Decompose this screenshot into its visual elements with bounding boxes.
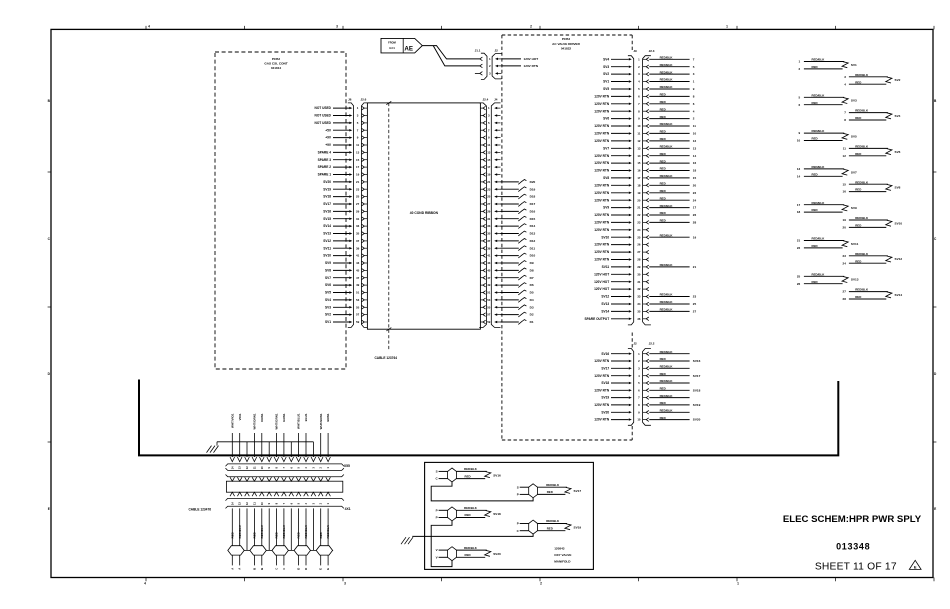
svg-text:SV1: SV1 [325,320,331,324]
wire J2.2 pin 5 RED/BLK [649,379,689,383]
svg-text:RED/BLK: RED/BLK [812,272,826,276]
svg-text:J4: J4 [494,98,498,102]
svg-text:J2: J2 [633,342,637,346]
svg-text:SV5: SV5 [325,291,331,295]
svg-text:OXY VALVE: OXY VALVE [554,553,571,557]
svg-text:RED: RED [855,152,861,156]
svg-text:35: 35 [637,310,641,314]
svg-text:25: 25 [487,195,491,199]
wire J2.3 pin 14 RED to SV pin 14 [649,152,696,158]
wire J2.3 pin 9 RED to SV pin 2 [649,115,695,121]
svg-text:S: S [517,485,519,489]
wire SV2 to J6 pin 57 [325,313,352,317]
svg-text:9-C1: 9-C1 [389,46,395,50]
svg-text:VIO1: VIO1 [238,413,242,420]
solenoid valve net SV14 (pins 27,28) [843,288,903,301]
wire SV12 to J9 pin 33 [601,295,631,299]
wire J2.3 pin 8 RED to SV pin 4 [649,107,695,113]
svg-text:RED/BLK: RED/BLK [282,524,286,538]
wire J4 pin 45 to net D8 [501,268,534,273]
wire 120V RTN to J9 pin 10 [594,124,631,128]
shield drain wire to splice [290,508,292,550]
svg-text:SV10: SV10 [323,254,331,258]
wire pair 2 conductor ORN1 [260,413,264,457]
svg-text:17: 17 [637,176,641,180]
svg-text:120V RTN: 120V RTN [594,213,610,217]
svg-text:53: 53 [356,298,360,302]
wire J4 pin 21 to net D20 [501,180,536,185]
wire J2.3 pin 17 RED/BLK to SV pin 15 [649,174,696,180]
svg-text:SV7: SV7 [851,170,857,174]
svg-text:29: 29 [356,210,360,214]
svg-text:RED/BLK: RED/BLK [855,145,869,149]
wire SV8 to J6 pin 45 [325,269,352,273]
svg-text:RED/BLK: RED/BLK [812,237,826,241]
svg-text:V: V [436,548,438,552]
wire SV4 to J9 pin 1 [603,57,632,61]
wire J2.3 pin 2 RED/BLK to SV pin 5 [649,63,695,69]
shield splice 2 [250,546,266,555]
wire 120V HOT to J9 pin 32 [594,287,632,291]
svg-text:SV8: SV8 [325,269,331,273]
svg-text:RED/BLK: RED/BLK [812,93,826,97]
svg-text:28: 28 [637,258,641,262]
svg-text:120V HOT: 120V HOT [594,287,609,291]
wire SV20 to J6 pin 21 [323,180,352,184]
svg-text:120V RTN: 120V RTN [594,183,610,187]
svg-text:RED/BLK: RED/BLK [238,524,242,538]
svg-text:SV14: SV14 [601,310,609,314]
svg-text:PCB3: PCB3 [562,37,571,41]
svg-text:SV6: SV6 [325,283,331,287]
wire pair 4 RED to manifold terminal [297,508,301,569]
shield drain wire to splice [312,508,314,550]
svg-text:23: 23 [843,254,847,258]
wire J2.3 pin 20 RED to SV pin 24 [649,196,696,202]
svg-text:120V RTN: 120V RTN [594,388,610,392]
svg-text:59: 59 [487,320,491,324]
svg-text:J2: J2 [495,49,499,53]
shield splice 3 [272,546,288,555]
shield splice 5 [316,546,332,555]
svg-text:120V RTN: 120V RTN [594,250,610,254]
svg-text:SV18: SV18 [693,388,701,392]
svg-text:A: A [238,568,242,570]
svg-text:SV3: SV3 [603,65,609,69]
wire J4 pin 43 to net D9 [501,261,534,266]
svg-text:SV16: SV16 [323,210,331,214]
svg-text:RED/BLK: RED/BLK [660,63,674,67]
wire J2.3 pin 23 RED to SV pin 28 [649,219,696,225]
wire J2.3 pin 3 RED/BLK to SV pin 3 [649,70,695,76]
svg-text:1: 1 [737,582,739,586]
svg-text:SV15: SV15 [323,217,331,221]
svg-text:RED/BLK: RED/BLK [812,58,826,62]
svg-text:BRN1: BRN1 [326,413,330,421]
wire 120V RTN to J9 pin 15 [594,161,631,165]
svg-text:D10: D10 [530,254,536,258]
svg-text:E: E [326,568,330,570]
svg-text:34: 34 [637,302,641,306]
wire +9V to J6 pin 11 [325,143,352,147]
svg-text:26: 26 [693,213,697,217]
svg-text:X55: X55 [344,464,350,468]
svg-text:15: 15 [637,161,641,165]
svg-text:25: 25 [356,195,360,199]
svg-text:SV19: SV19 [601,396,609,400]
wire SPARE OUTPUT to J9 pin 36 [584,317,631,321]
wire SV1 to J9 pin 4 [603,80,632,84]
svg-text:10: 10 [637,124,641,128]
shield drain wire [246,442,248,457]
wire +5V to J6 pin 7 [325,128,352,132]
svg-text:57: 57 [487,313,491,317]
svg-text:31: 31 [487,217,491,221]
svg-text:120V RTN: 120V RTN [594,109,610,113]
svg-text:RED: RED [812,65,818,69]
svg-text:RED/BLK: RED/BLK [660,204,674,208]
svg-text:SPARE 1: SPARE 1 [318,173,332,177]
svg-text:ELEC SCHEM:HPR PWR SPLY: ELEC SCHEM:HPR PWR SPLY [783,514,922,525]
svg-text:RED/BLK: RED/BLK [660,85,674,89]
svg-text:WHT/BLU1: WHT/BLU1 [297,413,301,429]
connector J6 [348,98,360,328]
svg-text:SV8: SV8 [603,176,609,180]
wire J2.2 pin 3 RED/BLK [649,365,689,369]
wire J4 pin 33 to net D14 [501,224,536,229]
svg-text:RED: RED [660,401,666,405]
svg-text:19: 19 [356,173,360,177]
svg-text:WHT/GRN1: WHT/GRN1 [275,413,279,429]
svg-text:120V RTN: 120V RTN [594,139,610,143]
svg-text:19: 19 [843,218,847,222]
wire J2.3 pin 16 RED to SV pin 18 [649,167,696,173]
wire J4 pin 55 to net D3 [501,305,534,310]
svg-text:RED/BLK: RED/BLK [660,308,674,312]
svg-text:RED: RED [319,531,323,538]
wire SV6 to J6 pin 49 [325,283,352,287]
svg-text:12: 12 [843,154,847,158]
svg-text:RED: RED [465,553,471,557]
svg-text:J2.6: J2.6 [360,98,366,102]
svg-text:WHT/ORN1: WHT/ORN1 [253,413,257,429]
svg-text:041822: 041822 [561,47,572,51]
svg-text:120V RTN: 120V RTN [594,418,610,422]
wire SV8 to J9 pin 17 [603,176,632,180]
svg-text:FROM: FROM [388,41,396,45]
wire 120V RTN to J9 pin 11 [594,132,631,136]
svg-text:P: P [517,493,519,497]
wire 120V RTN to J9 pin 20 [594,198,631,202]
wire J4 pin 57 to net D2 [501,312,534,317]
svg-text:24: 24 [843,261,847,265]
wire pair 2 RED to manifold terminal [252,508,256,569]
svg-text:E: E [914,564,917,569]
svg-text:SV9: SV9 [603,206,609,210]
svg-text:RED/BLK: RED/BLK [464,546,478,550]
svg-text:D: D [304,568,308,570]
svg-text:18: 18 [637,183,641,187]
wire SV18 to J2 pin 5 [601,381,631,385]
svg-text:21: 21 [637,206,641,210]
svg-text:+9V: +9V [325,143,332,147]
svg-text:SV17: SV17 [601,366,609,370]
svg-text:041814: 041814 [271,66,282,70]
svg-text:13: 13 [637,146,641,150]
solenoid valve net SV8 (pins 15,16) [843,180,901,193]
svg-text:AE: AE [404,45,413,52]
svg-text:SV13: SV13 [323,232,331,236]
wire J2.3 pin 10 RED/BLK to SV pin 11 [649,122,696,128]
svg-text:29: 29 [637,265,641,269]
svg-text:SV4: SV4 [603,57,609,61]
wire 120V RTN to J2 pin 6 [594,388,631,392]
svg-text:120V HOT: 120V HOT [594,272,609,276]
svg-text:120V RTN: 120V RTN [594,228,610,232]
svg-text:RED/BLK: RED/BLK [812,165,826,169]
svg-text:RED/BLK: RED/BLK [855,109,869,113]
svg-text:21: 21 [356,180,360,184]
svg-text:120V RTN: 120V RTN [594,374,610,378]
svg-text:013348: 013348 [836,542,870,552]
svg-text:RED/BLK: RED/BLK [855,216,869,220]
svg-text:RED: RED [660,152,666,156]
svg-text:120V RTN: 120V RTN [594,191,610,195]
svg-text:120V RTN: 120V RTN [594,124,610,128]
svg-text:17: 17 [356,165,360,169]
svg-text:SV8: SV8 [895,186,901,190]
wire SV14 to J6 pin 33 [323,224,352,228]
wire SV14 to J9 pin 35 [601,310,631,314]
svg-text:SV19: SV19 [323,187,331,191]
wire SV5 to J6 pin 51 [325,291,352,295]
wire 120V RTN into PCB3 [502,64,539,68]
svg-text:120843: 120843 [554,546,565,550]
svg-text:RED/BLK: RED/BLK [304,524,308,538]
svg-text:RED: RED [660,189,666,193]
svg-text:+5V: +5V [325,128,332,132]
wire J2.3 pin 4 RED/BLK to SV pin 1 [649,78,695,84]
solenoid valve net SV2 (pins 3,4) [844,73,900,86]
wire SV20 common to manifold common [431,536,452,566]
svg-text:19: 19 [693,235,697,239]
svg-text:12: 12 [693,139,697,143]
svg-text:57: 57 [356,313,360,317]
wire 120V RTN to J9 pin 19 [594,191,631,195]
svg-text:3: 3 [344,582,346,586]
shield drain wire [312,442,314,457]
svg-text:D11: D11 [530,246,536,250]
wire J4 pin 29 to net D16 [501,209,536,214]
wire SV7 to J9 pin 13 [603,146,632,150]
svg-text:RED/BLK: RED/BLK [855,180,869,184]
svg-text:120V RTN: 120V RTN [594,169,610,173]
svg-text:RED: RED [660,100,666,104]
wire J2.2 pin 4 RED [649,372,689,376]
svg-text:55: 55 [487,305,491,309]
svg-text:B: B [252,568,256,570]
svg-text:15: 15 [487,158,491,162]
wire SV17 to J2 pin 3 [601,366,631,370]
svg-text:RED/BLK: RED/BLK [660,365,674,369]
wire pair 2 RED/BLK to manifold terminal [260,508,264,569]
svg-text:D2: D2 [530,313,534,317]
wire J4 pin 51 to net D5 [501,290,534,295]
svg-text:47: 47 [356,276,360,280]
wire J2.3 pin 35 RED/BLK to SV pin 27 [649,308,696,314]
svg-text:20: 20 [693,183,697,187]
wire J2.3 pin 22 RED to SV pin 26 [649,211,696,217]
connector 4X1 [226,475,351,512]
wire 120V RTN to J9 pin 28 [594,258,631,262]
svg-text:SV19: SV19 [693,403,701,407]
wire pair 4 conductor BLU1 [304,413,308,457]
svg-text:D18: D18 [530,195,536,199]
OXY VALVE MANIFOLD enclosure [425,462,594,569]
svg-text:RED: RED [855,80,861,84]
svg-text:27: 27 [843,290,847,294]
wire SV17 to J6 pin 27 [323,202,352,206]
svg-text:28: 28 [843,297,847,301]
wire NOT USED to J6 pin 1 [315,106,353,110]
svg-text:PCB2: PCB2 [272,57,281,61]
solenoid valve net SV11 (pins 21,22) [797,237,859,250]
wire J2.3 pin 33 RED/BLK to SV pin 23 [649,293,696,299]
svg-text:18: 18 [797,210,801,214]
svg-text:120V RTN: 120V RTN [594,221,610,225]
svg-text:20: 20 [843,226,847,230]
wire J2.3 pin 29 RED/BLK to SV pin 21 [649,263,696,269]
svg-text:RED: RED [660,357,666,361]
wire 120V RTN to J9 pin 18 [594,183,631,187]
wire SV9 to J6 pin 43 [325,261,352,265]
wire pair 2 conductor WHT/ORN1 [253,413,257,457]
svg-text:C: C [275,568,279,570]
svg-text:SV10: SV10 [895,221,903,225]
svg-text:NOT USED: NOT USED [315,106,332,110]
wire SV18 to J6 pin 25 [323,195,352,199]
svg-text:11: 11 [637,132,640,136]
svg-text:29: 29 [487,210,491,214]
svg-text:16: 16 [843,190,847,194]
svg-text:SV1: SV1 [851,63,857,67]
svg-text:AC VALVE DRIVER: AC VALVE DRIVER [552,42,580,46]
svg-text:23: 23 [487,187,491,191]
svg-text:26: 26 [637,243,641,247]
svg-text:D15: D15 [530,217,536,221]
wire J2.3 pin 19 RED to SV pin 22 [649,189,696,195]
svg-text:120V RTN: 120V RTN [594,359,610,363]
svg-text:RED: RED [812,280,818,284]
wire NOT USED to J6 pin 5 [315,121,353,125]
svg-text:13: 13 [797,167,801,171]
svg-text:D14: D14 [530,224,536,228]
svg-text:22: 22 [693,191,697,195]
solenoid valve SV17 [517,483,582,498]
svg-text:RED: RED [660,93,666,97]
svg-text:20: 20 [637,198,641,202]
svg-text:27: 27 [637,250,641,254]
svg-text:D1: D1 [530,320,534,324]
svg-text:RED: RED [660,219,666,223]
svg-text:RED: RED [660,159,666,163]
wire J4 pin 25 to net D18 [501,194,536,199]
svg-text:59: 59 [356,320,360,324]
svg-text:SV14: SV14 [895,293,903,297]
wire J2.3 pin 12 RED to SV pin 12 [649,137,696,143]
svg-text:SV11: SV11 [851,242,859,246]
svg-text:RED/BLK: RED/BLK [812,129,826,133]
svg-text:30: 30 [637,272,641,276]
svg-text:SV13: SV13 [851,278,859,282]
wire SV6 to J9 pin 9 [603,117,632,121]
svg-text:D4: D4 [530,298,534,302]
svg-text:SV2: SV2 [895,78,901,82]
svg-text:RED: RED [465,513,471,517]
wire pair 3 RED/BLK to manifold terminal [282,508,286,569]
solenoid valve net SV9 (pins 17,18) [797,201,857,214]
svg-text:1: 1 [726,25,728,29]
svg-text:26: 26 [797,282,801,286]
svg-text:RED: RED [660,372,666,376]
svg-text:120V RTN: 120V RTN [594,154,610,158]
svg-text:E: E [48,507,50,511]
svg-text:120V RTN: 120V RTN [594,198,610,202]
shield drain wire to splice [268,508,270,550]
svg-text:10: 10 [693,132,697,136]
wire J2.3 pin 21 RED/BLK to SV pin 17 [649,204,696,210]
solenoid valve SV18 [436,506,501,521]
wire J2.3 pin 1 RED/BLK to SV pin 7 [649,56,695,62]
svg-text:P: P [436,516,438,520]
svg-text:4: 4 [144,582,146,586]
wire SV1 to J6 pin 59 [325,320,352,324]
svg-text:MANIFOLD: MANIFOLD [554,559,571,563]
svg-text:27: 27 [356,202,360,206]
svg-text:4X1: 4X1 [345,507,351,511]
svg-text:13: 13 [487,151,491,155]
svg-text:25: 25 [637,235,641,239]
shield splice bus line [228,549,333,551]
svg-text:120V HOT: 120V HOT [594,280,609,284]
svg-text:21: 21 [693,265,697,269]
wire J2.3 pin 7 RED to SV pin 6 [649,100,695,106]
svg-text:SV18: SV18 [601,381,609,385]
svg-text:36: 36 [637,317,641,321]
svg-text:BLU1: BLU1 [304,413,308,421]
svg-text:D7: D7 [530,276,534,280]
wire 120V RTN to J9 pin 16 [594,169,631,173]
svg-text:RED: RED [230,531,234,538]
wire pair 3 conductor WHT/GRN1 [275,413,279,457]
svg-text:39: 39 [356,246,360,250]
svg-text:11: 11 [356,143,359,147]
svg-text:D16: D16 [530,210,536,214]
svg-text:P: P [436,508,438,512]
svg-text:55: 55 [356,305,360,309]
svg-text:SV10: SV10 [601,235,609,239]
connector J1.1 [475,49,491,80]
svg-text:RED/BLK: RED/BLK [660,78,674,82]
shield drain wire [290,442,292,457]
svg-text:RED/BLK: RED/BLK [546,483,560,487]
svg-text:120V RTN: 120V RTN [594,161,610,165]
svg-text:120V RTN: 120V RTN [594,132,610,136]
wire J4 pin 41 to net D10 [501,253,536,258]
svg-text:SV17: SV17 [323,202,331,206]
svg-text:49: 49 [487,283,491,287]
solenoid valve net SV3 (pins 5,6) [799,93,857,106]
